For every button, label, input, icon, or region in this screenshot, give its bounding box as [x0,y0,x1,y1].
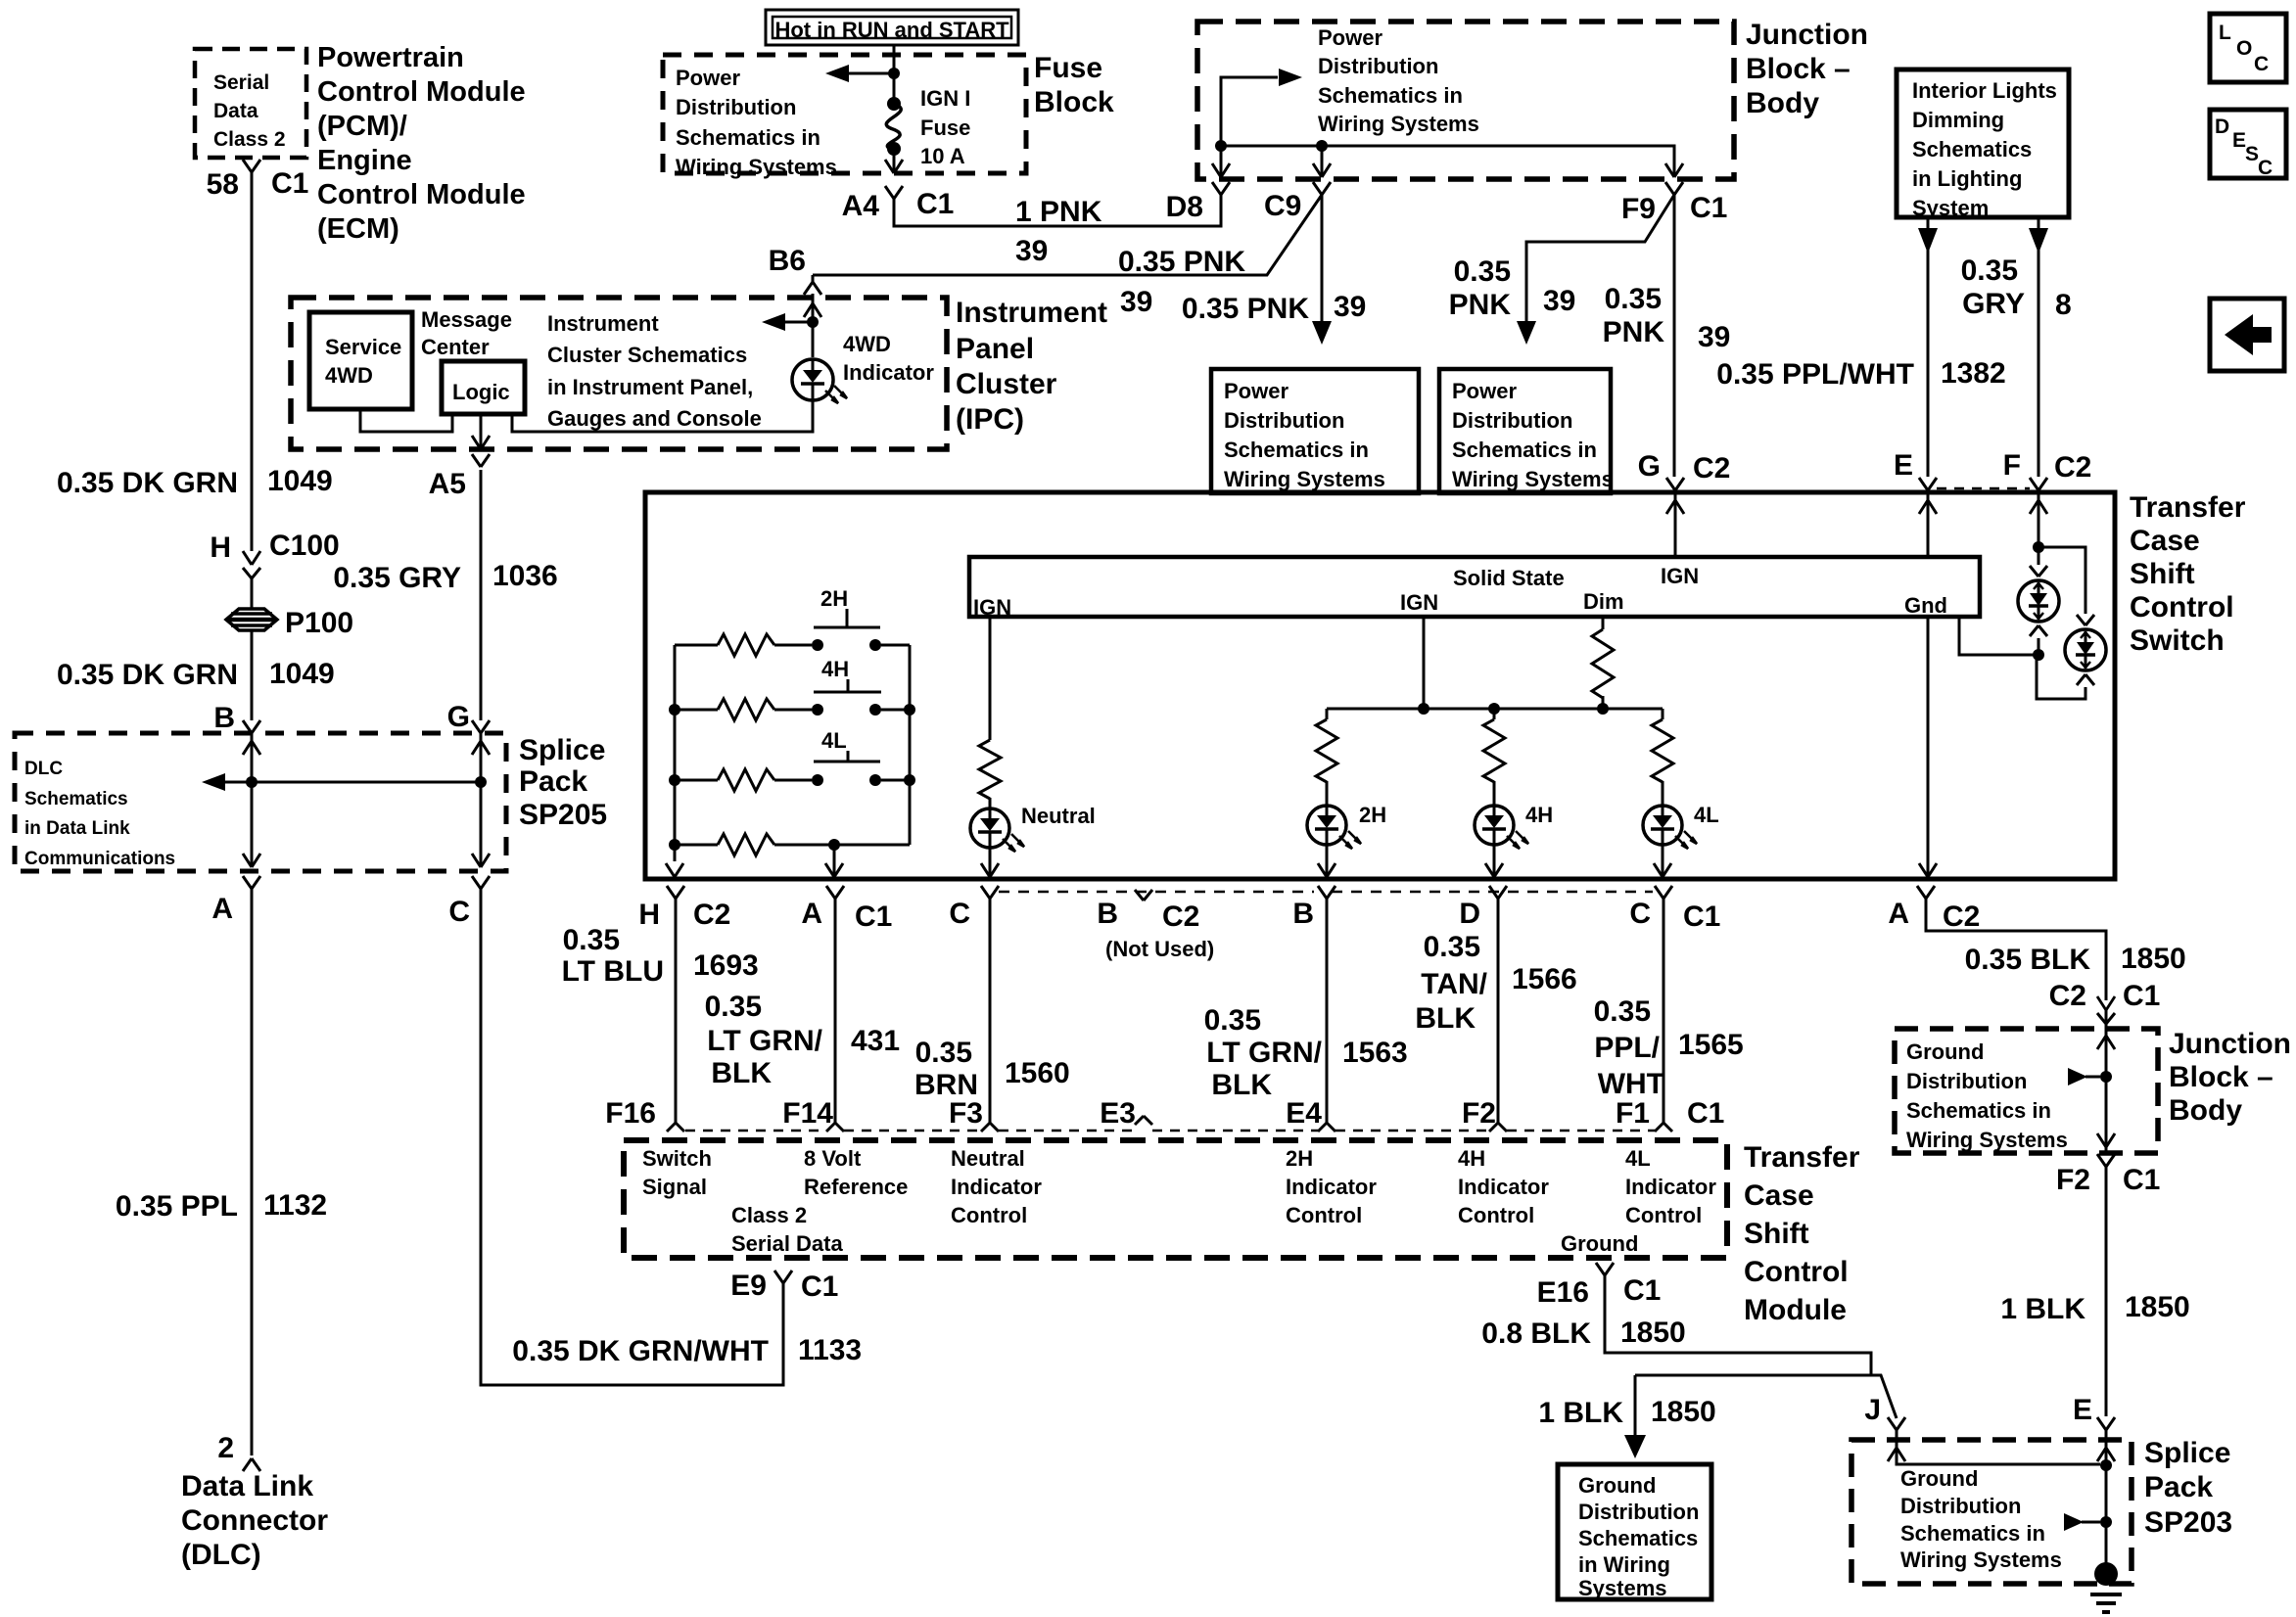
svg-text:BLK: BLK [1415,1002,1476,1035]
svg-text:1566: 1566 [1512,963,1577,995]
svg-text:Connector: Connector [181,1504,328,1537]
resistor ladder row 4 [669,839,680,851]
svg-text:A: A [211,893,233,925]
svg-text:Case: Case [2130,525,2200,557]
connector row dashed module [685,1130,826,1132]
svg-text:Dim: Dim [1583,589,1624,614]
svg-text:E3: E3 [1100,1097,1136,1130]
junction dot G [475,776,487,788]
svg-text:in Data Link: in Data Link [24,818,130,839]
svg-text:E: E [1894,449,1913,482]
svg-text:C2: C2 [2054,451,2091,484]
svg-text:C9: C9 [1264,190,1301,222]
svg-text:Distribution: Distribution [1906,1069,2027,1093]
svg-text:0.35: 0.35 [1424,931,1480,963]
svg-text:4WD: 4WD [843,332,891,356]
svg-text:Indicator: Indicator [1286,1175,1377,1199]
svg-text:39: 39 [1015,235,1048,267]
connector pin A C2 switch ground [1917,886,1926,899]
wire to E9 via bottom run [481,886,783,1385]
svg-text:Wiring Systems: Wiring Systems [676,155,837,179]
svg-text:0.35: 0.35 [1204,1004,1261,1037]
svg-text:Control Module: Control Module [317,179,526,210]
connector pin F16 [667,1123,676,1132]
svg-text:39: 39 [1698,321,1730,353]
svg-text:Body: Body [2169,1094,2242,1127]
svg-text:PNK: PNK [1449,289,1512,321]
wire bus to J [1635,1375,1897,1418]
connector lamp 1 upper [2030,566,2038,577]
reference arrow ground distribution [2085,1076,2100,1079]
svg-text:0.35 PPL: 0.35 PPL [116,1190,238,1223]
svg-text:G: G [447,701,470,733]
junction dot 4H bus [1488,703,1500,715]
svg-text:SP203: SP203 [2144,1506,2232,1539]
resistor ladder row 3 [669,774,680,786]
wire 0.35 LT GRN/BLK 431 [834,899,837,1123]
svg-text:Wiring Systems: Wiring Systems [1224,467,1385,491]
display box Service 4WD [309,312,412,409]
svg-text:Indicator: Indicator [843,360,934,385]
junction dot J splice [2100,1459,2112,1471]
svg-text:Schematics in: Schematics in [1900,1521,2045,1546]
svg-text:PPL/: PPL/ [1594,1032,1660,1064]
svg-text:Instrument: Instrument [956,297,1107,329]
svg-text:F: F [2003,449,2021,482]
wire Service 4WD to logic [360,409,452,432]
svg-text:0.35 PNK: 0.35 PNK [1182,293,1309,325]
splice pack DLC schematics dashed box [15,733,506,871]
svg-text:LT GRN/: LT GRN/ [707,1025,822,1057]
ground G203 [2094,1562,2118,1586]
svg-text:Wiring Systems: Wiring Systems [1906,1128,2068,1152]
wire 0.35 LT GRN/BLK 1563 [1326,899,1329,1123]
svg-text:Module: Module [1744,1294,1847,1326]
svg-text:58: 58 [207,168,239,201]
svg-text:Serial Data: Serial Data [731,1231,843,1256]
connector pin C C1 [981,886,990,899]
wire drop D8 [1220,146,1223,177]
svg-text:Interior Lights: Interior Lights [1912,78,2057,103]
svg-text:Block: Block [1034,86,1114,118]
svg-text:Ground: Ground [1578,1473,1656,1498]
svg-text:C1: C1 [2123,1164,2160,1196]
junction dot C9 feed [1316,140,1328,152]
wire drop F9 [1665,163,1674,177]
wire 1 BLK 1850 branch [1634,1375,1637,1435]
svg-text:C: C [2258,157,2273,179]
svg-text:Power: Power [676,66,740,90]
wire Gnd to A C2 [1927,617,1930,877]
wire 1 PNK 39 to D8 [894,195,1221,226]
svg-text:IGN: IGN [1661,564,1699,588]
junction dot lamp return [2033,649,2044,661]
wire 0.35 PNK 39 C9 down [1321,195,1324,323]
svg-text:0.35 PNK: 0.35 PNK [1118,246,1245,278]
svg-text:0.35 DK GRN: 0.35 DK GRN [57,467,238,499]
svg-text:Ground: Ground [1900,1466,1978,1491]
svg-text:1565: 1565 [1678,1029,1744,1061]
reference box power distribution 1 [1211,369,1419,493]
svg-text:Hot in RUN and START: Hot in RUN and START [774,18,1009,42]
wire IGN drop to bus [1423,617,1426,709]
svg-text:C1: C1 [1683,901,1720,933]
svg-text:Junction: Junction [1746,19,1868,51]
reference box power distribution 2 [1439,369,1611,493]
svg-text:Communications: Communications [24,849,175,869]
svg-text:(PCM)/: (PCM)/ [317,111,407,142]
svg-text:Distribution: Distribution [1318,54,1438,78]
wire 0.35 PPL 1132 to DLC [251,886,254,1455]
svg-text:Control: Control [1625,1203,1702,1227]
junction dot 4WD indicator [807,316,819,328]
svg-text:1049: 1049 [267,465,333,497]
svg-text:Gauges and Console: Gauges and Console [547,406,762,431]
svg-text:4L: 4L [1625,1146,1651,1171]
reference arrow SP203 [2082,1521,2100,1524]
wire 0.35 TAN/BLK 1566 [1497,899,1500,1123]
resistor neutral [979,740,1001,799]
svg-text:C1: C1 [916,188,954,220]
connector pin B6 [812,275,815,282]
svg-text:BLK: BLK [711,1057,772,1089]
wire 0.35 PNK 39 F9 branch [1526,195,1674,323]
connector pin F14 [826,1123,835,1132]
svg-text:F1: F1 [1616,1097,1650,1130]
wire H C2 drop [666,863,675,877]
svg-text:0.35 DK GRN/WHT: 0.35 DK GRN/WHT [512,1335,769,1367]
svg-text:D8: D8 [1166,191,1203,223]
LED 4WD indicator [792,359,833,400]
LED Neutral [970,808,1009,848]
wire logic to A5 [480,414,483,449]
svg-text:1382: 1382 [1941,357,2006,390]
svg-text:Switch: Switch [642,1146,712,1171]
svg-text:C2: C2 [1943,901,1980,933]
svg-text:C2: C2 [1693,452,1730,485]
svg-text:0.35 PPL/WHT: 0.35 PPL/WHT [1716,358,1914,391]
wire 0.35 PPL/WHT 1382 E [1927,217,1930,477]
svg-text:Solid State: Solid State [1453,566,1565,590]
wire 0.35 LT BLU 1693 [675,899,678,1123]
svg-text:Block –: Block – [2169,1061,2273,1093]
connector lamp 2 lower [2077,674,2085,685]
svg-text:F2: F2 [1462,1097,1496,1130]
svg-text:4L: 4L [1694,803,1719,827]
svg-text:(IPC): (IPC) [956,403,1024,436]
wire 1 BLK 1850 to splice pack [2105,1167,2108,1416]
svg-text:B: B [1097,898,1118,930]
connector pin F3 [981,1123,990,1132]
resistor Dim [1602,617,1605,629]
svg-text:4H: 4H [1458,1146,1485,1171]
wire neutral to C [989,848,992,877]
svg-text:Powertrain: Powertrain [317,42,464,73]
svg-text:Fuse: Fuse [920,115,970,140]
connector pin F9 C1 [1665,182,1674,195]
svg-text:Neutral: Neutral [1021,804,1096,828]
junction dot ground reference [2100,1071,2112,1083]
svg-text:H: H [638,899,660,931]
svg-text:Data Link: Data Link [181,1470,313,1502]
svg-text:Indicator: Indicator [1625,1175,1716,1199]
svg-text:Switch: Switch [2130,624,2225,657]
svg-text:D: D [2215,115,2229,138]
wire 0.8 BLK 1850 from E16 [1605,1275,1871,1375]
svg-text:Fuse: Fuse [1034,52,1102,84]
svg-text:Indicator: Indicator [1458,1175,1549,1199]
resistor 4H branch [1493,709,1496,719]
connector lamp 1 lower [2030,625,2038,636]
svg-text:F14: F14 [782,1097,833,1130]
svg-text:1850: 1850 [1651,1396,1716,1428]
wire lamp return to bar [1959,619,2038,655]
svg-text:E9: E9 [730,1270,767,1302]
svg-text:in Lighting: in Lighting [1912,166,2022,191]
svg-text:0.35 BLK: 0.35 BLK [1965,944,2091,976]
svg-text:0.35 GRY: 0.35 GRY [333,562,461,594]
connector pin B 2H [1318,886,1327,899]
wire 4H to F2 [1493,845,1496,877]
connector pin 58 C1 [243,160,252,172]
connector pin E9 C1 [774,1270,783,1283]
svg-text:C2: C2 [2049,980,2086,1012]
svg-text:39: 39 [1120,286,1152,318]
wire 0.35 BRN 1560 [989,899,992,1123]
svg-text:F3: F3 [949,1097,983,1130]
svg-text:Engine: Engine [317,145,412,176]
svg-text:Schematics in: Schematics in [1906,1098,2051,1123]
reference arrow IPC left [783,321,813,324]
connector pin F2 C1 junction block [2097,1154,2106,1167]
svg-text:Schematics in: Schematics in [676,125,820,150]
svg-text:4H: 4H [1525,803,1553,827]
connector pin A C1 [826,886,835,899]
svg-text:Schematics in: Schematics in [1452,438,1597,462]
wire IGN neutral branch [989,617,992,740]
connector pin C 4L C1 [1655,886,1663,899]
svg-text:A4: A4 [842,190,880,222]
reference box ground distribution schematics [1558,1464,1711,1599]
svg-text:E: E [2232,129,2246,152]
splice bus SP205 with reference arrow [223,781,481,784]
svg-text:A5: A5 [429,468,466,500]
svg-text:Distribution: Distribution [1224,408,1344,433]
svg-text:Splice: Splice [519,734,605,766]
svg-text:Power: Power [1452,379,1517,403]
junction dot ground arrow [2100,1516,2112,1528]
svg-text:B6: B6 [769,245,806,277]
svg-text:Distribution: Distribution [676,95,796,119]
svg-text:Splice: Splice [2144,1437,2230,1469]
svg-text:Cluster: Cluster [956,368,1057,400]
svg-text:Ground: Ground [1561,1231,1638,1256]
svg-text:Schematics: Schematics [1912,137,2032,162]
wire F illumination feed [2038,492,2040,565]
svg-text:1132: 1132 [263,1189,327,1222]
junction dot Dim bus [1597,703,1609,715]
svg-text:2H: 2H [1286,1146,1313,1171]
svg-text:Instrument: Instrument [547,311,659,336]
wire lamp 1 to gnd tap [2038,638,2040,655]
wire E into solid state [1927,492,1930,557]
svg-text:BLK: BLK [1211,1069,1272,1101]
svg-text:Control: Control [2130,591,2234,624]
svg-text:Power: Power [1224,379,1289,403]
svg-text:Control Module: Control Module [317,76,526,108]
svg-text:TAN/: TAN/ [1421,968,1487,1000]
navigation arrow box [2210,299,2284,371]
svg-text:B: B [1292,898,1314,930]
wire 4L to F1 [1662,845,1664,877]
splice P100 pass-through grommet [226,609,277,630]
svg-text:H: H [210,531,231,564]
svg-text:Schematics in: Schematics in [1224,438,1369,462]
svg-text:C100: C100 [269,530,340,562]
splice pack SP203 dashed box [1851,1440,2132,1584]
wire 0.35 DK GRN 1049 lower [251,631,254,720]
svg-text:1850: 1850 [2125,1291,2190,1323]
connector pin E3 stub [1135,1116,1144,1125]
svg-text:Class 2: Class 2 [213,128,286,151]
svg-text:1850: 1850 [2121,943,2186,975]
svg-text:Reference: Reference [804,1175,908,1199]
svg-text:Data: Data [213,100,258,122]
svg-text:1133: 1133 [798,1334,862,1366]
svg-text:Control: Control [1286,1203,1362,1227]
svg-text:Control: Control [1458,1203,1534,1227]
svg-text:0.35: 0.35 [915,1037,972,1069]
locator box LOC [2210,14,2286,82]
svg-text:C: C [448,896,470,928]
svg-text:Gnd: Gnd [1904,593,1947,618]
svg-text:Schematics: Schematics [24,789,128,809]
svg-text:WHT: WHT [1598,1068,1664,1100]
svg-text:10 A: 10 A [920,144,965,168]
wire LED to logic [512,400,813,432]
connector pin D 4H [1489,886,1498,899]
connector dashed link E F [1937,487,2030,490]
connector pin E4 [1318,1123,1327,1132]
svg-text:Systems: Systems [1578,1576,1667,1600]
connector lamp 2 upper [2077,615,2085,625]
svg-text:C1: C1 [1623,1274,1661,1307]
wire E into SP203 [2105,1430,2108,1567]
svg-text:D: D [1459,898,1480,930]
junction dot F split [2033,541,2044,553]
connector pin A4 C1 [885,186,894,199]
svg-text:(DLC): (DLC) [181,1539,261,1571]
wire arrows in junction block [2097,1036,2106,1049]
svg-text:C1: C1 [1687,1097,1724,1130]
wire 0.35 DK GRN 1049 upper [251,172,254,551]
svg-text:in Wiring: in Wiring [1578,1552,1670,1577]
svg-text:1693: 1693 [693,949,759,982]
svg-text:IGN: IGN [973,595,1011,620]
connector pin A5 [472,454,481,467]
connector pin B C2 not used [1135,890,1144,901]
svg-text:Case: Case [1744,1179,1814,1212]
svg-text:O: O [2236,37,2252,60]
svg-text:Logic: Logic [452,380,510,404]
junction block body dashed box [1197,22,1734,179]
svg-text:Serial: Serial [213,71,269,94]
svg-text:1850: 1850 [1620,1317,1686,1349]
svg-text:4H: 4H [821,657,849,681]
svg-text:C2: C2 [1162,901,1199,933]
svg-text:P100: P100 [285,607,353,639]
svg-text:Control: Control [1744,1256,1849,1288]
wire 0.35 BLK 1850 [1926,899,2106,1000]
svg-text:4L: 4L [821,728,847,753]
svg-text:1 PNK: 1 PNK [1015,196,1102,228]
wire exit arrow C [472,854,481,867]
svg-text:in Instrument Panel,: in Instrument Panel, [547,375,753,399]
svg-text:8 Volt: 8 Volt [804,1146,862,1171]
module Serial Data Class 2 (PCM) dashed box [195,49,306,158]
svg-text:C: C [1629,898,1651,930]
reference arrow to power distribution text [1221,77,1278,146]
svg-text:Dimming: Dimming [1912,108,2004,132]
wire A C1 drop [833,845,836,877]
LED 4H [1475,806,1514,845]
svg-text:LT BLU: LT BLU [562,955,664,988]
svg-text:IGN: IGN [1400,590,1438,615]
LED illumination 2 [2065,629,2106,670]
svg-text:Distribution: Distribution [1452,408,1572,433]
LED 4L [1643,806,1682,845]
resistor ladder row 1 [675,644,718,647]
svg-text:C1: C1 [855,901,892,933]
svg-text:39: 39 [1543,285,1575,317]
svg-text:PNK: PNK [1603,316,1665,348]
wire 0.35 PNK 39 C9 to B6 [813,195,1322,275]
junction dot IGN bus [1418,703,1429,715]
module Instrument Panel Cluster dashed box [291,298,947,449]
svg-text:Signal: Signal [642,1175,707,1199]
svg-text:C: C [949,898,970,930]
fuse IGN I 10A [887,97,901,111]
svg-text:1 BLK: 1 BLK [2000,1293,2085,1325]
svg-text:Junction: Junction [2169,1028,2291,1060]
wire hot feed into fuse [893,45,896,102]
svg-text:E: E [2073,1394,2092,1426]
svg-text:1036: 1036 [492,560,558,592]
svg-text:2: 2 [217,1432,234,1464]
connector pin F1 C1 [1655,1123,1663,1132]
svg-text:Shift: Shift [2130,558,2195,590]
svg-text:4WD: 4WD [325,363,373,388]
locator box DESC [2210,110,2286,178]
svg-text:LT GRN/: LT GRN/ [1206,1037,1322,1069]
svg-text:S: S [2245,143,2259,165]
svg-text:A: A [801,898,822,930]
svg-text:Distribution: Distribution [1900,1494,2021,1518]
LED illumination 1 [2018,580,2059,622]
svg-text:Class 2: Class 2 [731,1203,807,1227]
wire lamp 2 return [2037,658,2085,699]
svg-text:C1: C1 [271,167,308,200]
svg-text:IGN I: IGN I [920,86,970,111]
svg-text:Cluster Schematics: Cluster Schematics [547,343,747,367]
svg-text:Transfer: Transfer [1744,1141,1860,1174]
svg-text:Wiring Systems: Wiring Systems [1900,1548,2062,1572]
svg-text:Body: Body [1746,87,1819,119]
svg-text:F2: F2 [2056,1164,2090,1196]
connector pin D8 [1212,182,1221,195]
wire lamp 2 feed [2038,547,2085,614]
svg-text:Wiring Systems: Wiring Systems [1318,112,1479,136]
